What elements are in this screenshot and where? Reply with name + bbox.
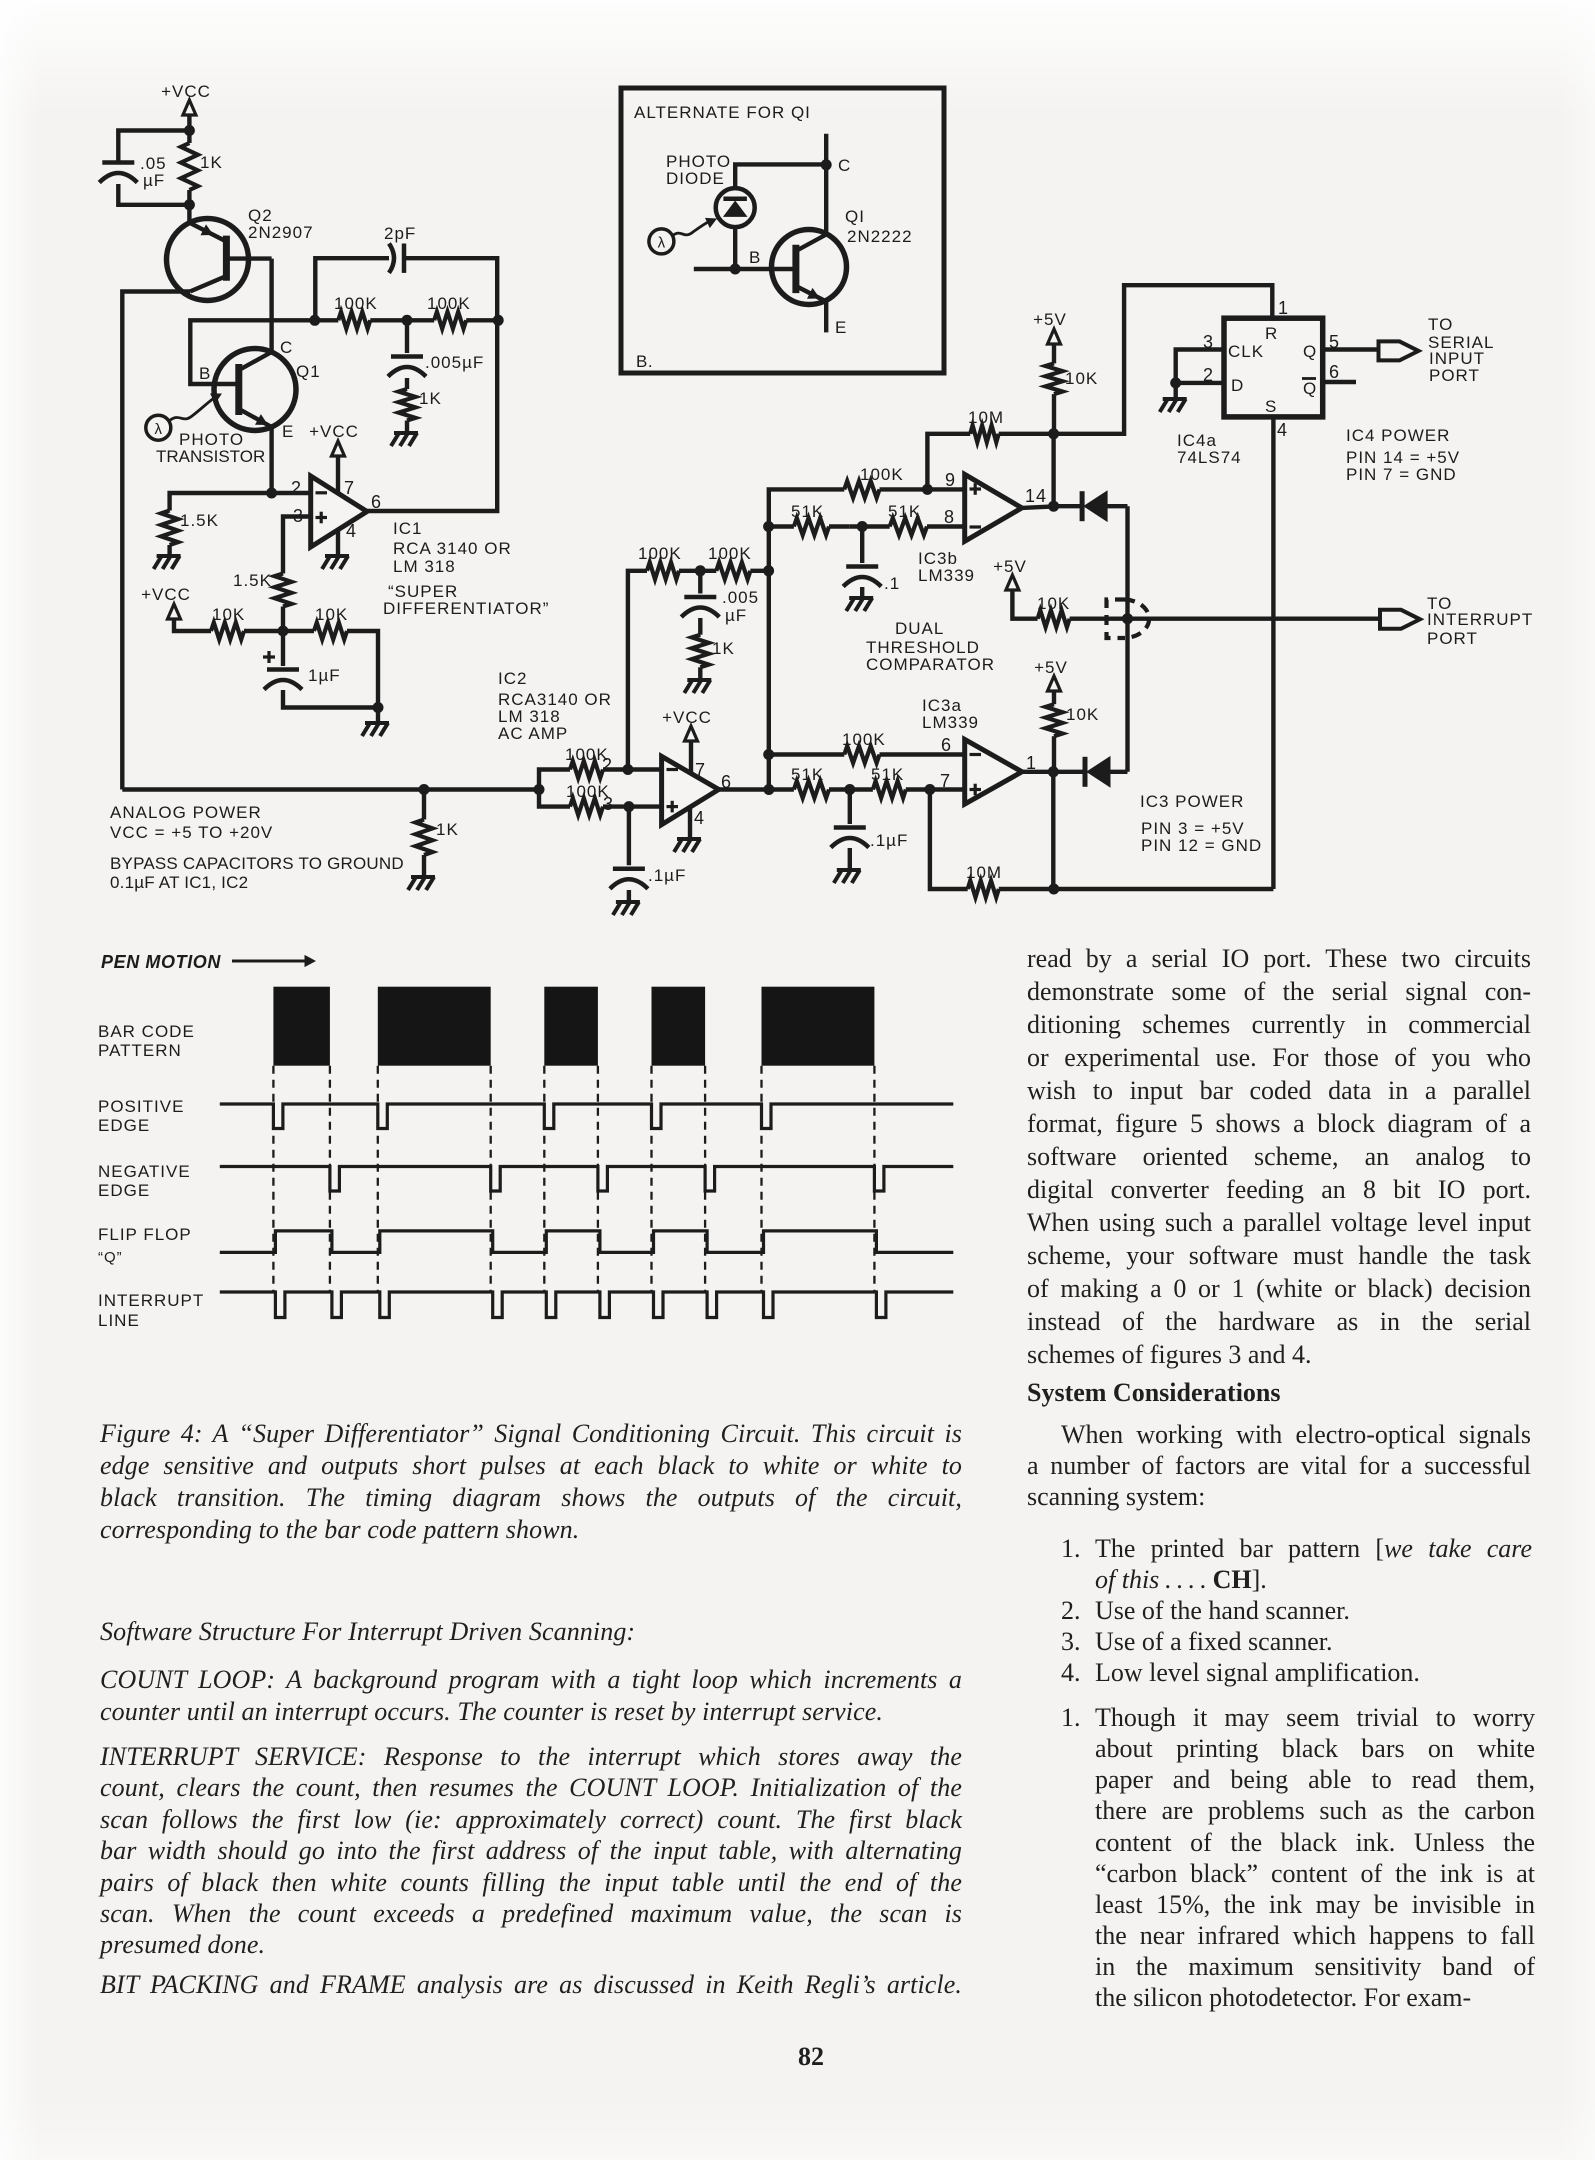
- svg-text:IC2: IC2: [498, 669, 527, 688]
- transistor Q1 (photo transistor): [199, 338, 321, 441]
- ground: [687, 678, 711, 682]
- node: IC2 pin2: [622, 764, 633, 775]
- connector (dashed): [1107, 600, 1150, 639]
- svg-text:C: C: [838, 156, 851, 175]
- node: base: [730, 264, 741, 275]
- wire: D: [1176, 381, 1224, 385]
- svg-text:14: 14: [1025, 486, 1047, 506]
- label IC3b: [918, 549, 975, 585]
- svg-text:1K: 1K: [436, 820, 459, 839]
- svg-text:.1µF: .1µF: [648, 866, 686, 885]
- resistor 10M (IC3a fb): [966, 863, 1273, 898]
- node: [1048, 884, 1059, 895]
- box: alternate for Q1: [621, 88, 944, 373]
- svg-text:10K: 10K: [1037, 594, 1070, 613]
- op-amp IC2 (AC amp): [602, 755, 732, 828]
- resistor 1.5K (Q1 emitter): [161, 493, 272, 556]
- resistor 51K (IC3a 2): [850, 765, 965, 798]
- node: IC1 pin2: [266, 488, 277, 499]
- svg-text:INTERRUPT: INTERRUPT: [1427, 610, 1533, 629]
- bar code bar 1: [273, 987, 330, 1066]
- wire: Q1 base loop: [190, 320, 314, 384]
- wire: diode junction vertical: [1125, 506, 1129, 772]
- svg-text:51K: 51K: [791, 502, 824, 521]
- wire: [1173, 383, 1177, 399]
- svg-text:Q1: Q1: [296, 362, 321, 381]
- wire: [848, 848, 852, 870]
- svg-text:1.5K: 1.5K: [180, 511, 219, 530]
- svg-text:10M: 10M: [968, 408, 1004, 427]
- port arrow: to serial input: [1379, 341, 1419, 360]
- svg-text:LM339: LM339: [922, 713, 979, 732]
- svg-text:VCC = +5 TO +20V: VCC = +5 TO +20V: [110, 823, 273, 842]
- bar code bar 5: [762, 987, 875, 1066]
- resistor 1K (IC1 fb): [399, 378, 442, 433]
- ground: [849, 596, 873, 600]
- label negative edge: [98, 1162, 191, 1200]
- svg-text:+VCC: +VCC: [141, 585, 191, 604]
- svg-text:7: 7: [344, 478, 355, 498]
- label to interrupt port: [1427, 594, 1533, 648]
- wire: [118, 184, 189, 205]
- svg-text:4: 4: [1277, 420, 1288, 440]
- node: [763, 565, 774, 576]
- ground: [411, 875, 435, 879]
- wire: pin14 node: [1051, 434, 1055, 506]
- label IC4a: [1177, 431, 1242, 467]
- svg-text:IC3 POWER: IC3 POWER: [1140, 792, 1244, 811]
- resistor 100K (IC3a pin6): [769, 730, 965, 763]
- ground: [616, 900, 640, 904]
- wire: [283, 690, 378, 708]
- svg-text:ANALOG POWER: ANALOG POWER: [110, 803, 262, 822]
- node: [821, 159, 832, 170]
- wire: IC3b output: [1022, 506, 1054, 508]
- svg-text:6: 6: [1329, 362, 1340, 382]
- wire: Q1 emitter down: [269, 427, 273, 493]
- label bar code pattern: [98, 1022, 195, 1060]
- node: IC2 pin3: [623, 801, 634, 812]
- svg-text:D: D: [1231, 376, 1244, 395]
- wire: S pin4: [1271, 417, 1275, 889]
- wire: [118, 131, 189, 163]
- resistor 10K (bias right): [283, 605, 378, 708]
- svg-text:LM 318: LM 318: [393, 557, 456, 576]
- resistor 1K (IC2 fb): [692, 618, 735, 680]
- resistor 1K (rail): [416, 790, 459, 878]
- wire: IC2 output: [719, 787, 769, 791]
- svg-text:IC4 POWER: IC4 POWER: [1346, 426, 1450, 445]
- wire: collector stub: [824, 134, 828, 234]
- wire pin4: [688, 807, 692, 839]
- node: [184, 199, 195, 210]
- resistor 10K (IC3a pullup): [1046, 704, 1100, 772]
- resistor 100K (IC2 in- ): [539, 782, 662, 815]
- node: IC3a pin7: [924, 784, 935, 795]
- svg-text:B.: B.: [636, 352, 653, 371]
- svg-text:POSITIVE: POSITIVE: [98, 1097, 184, 1116]
- waveform flip flop Q: [220, 1231, 954, 1253]
- svg-text:1K: 1K: [712, 639, 735, 658]
- svg-text:51K: 51K: [871, 765, 904, 784]
- wire: Qbar pin6 stub: [1323, 380, 1356, 384]
- port arrow: to interrupt: [1380, 610, 1420, 629]
- svg-text:74LS74: 74LS74: [1177, 448, 1242, 467]
- power +VCC (IC2): [662, 708, 712, 772]
- node: [534, 784, 545, 795]
- svg-text:10K: 10K: [1066, 705, 1099, 724]
- capacitor .005 uF (IC1): [388, 320, 484, 376]
- wire: to flip flop R pin1: [1054, 285, 1273, 434]
- resistor 51K (IC3a 1): [769, 765, 850, 798]
- waveform interrupt line: [220, 1292, 954, 1318]
- label IC3a: [922, 696, 979, 732]
- svg-text:0.1µF AT IC1, IC2: 0.1µF AT IC1, IC2: [110, 873, 248, 892]
- svg-text:4: 4: [694, 808, 705, 828]
- resistor 100K (IC2 fb 2): [700, 544, 768, 579]
- node: [695, 565, 706, 576]
- svg-text:EDGE: EDGE: [98, 1181, 150, 1200]
- svg-text:6: 6: [941, 735, 952, 755]
- bar code bar 2: [378, 987, 491, 1066]
- ground: [365, 721, 389, 725]
- svg-text:BYPASS CAPACITORS TO GROUND: BYPASS CAPACITORS TO GROUND: [110, 854, 404, 873]
- label IC1: [393, 519, 512, 576]
- svg-text:2: 2: [602, 755, 613, 775]
- svg-text:+VCC: +VCC: [161, 82, 211, 101]
- node: VCC top junction: [184, 125, 195, 136]
- label pen motion: [101, 952, 316, 972]
- wire: emitter stub: [824, 302, 828, 333]
- resistor 10M (IC3b fb): [927, 408, 1053, 489]
- svg-text:7: 7: [695, 760, 706, 780]
- resistor 10K (R pullup): [1046, 363, 1099, 433]
- svg-text:DIODE: DIODE: [666, 169, 725, 188]
- op-amp comparator IC3a LM339: [940, 735, 1037, 804]
- wire: IC3a output: [1022, 770, 1053, 774]
- svg-text:6: 6: [371, 492, 382, 512]
- power +5V (IC3a out): [1034, 658, 1068, 704]
- svg-text:100K: 100K: [860, 465, 904, 484]
- label positive edge: [98, 1097, 184, 1135]
- transistor Q1 2N2222 (alternate): [772, 207, 913, 305]
- photo diode: [666, 152, 755, 227]
- svg-text:+5V: +5V: [1033, 310, 1067, 329]
- waveform positive edge: [220, 1104, 954, 1129]
- svg-text:IC1: IC1: [393, 519, 422, 538]
- capacitor .1 uF (IC2 pin3): [610, 807, 686, 889]
- wire pin9: [927, 487, 964, 491]
- power +5V (interrupt pullup): [993, 557, 1037, 619]
- wire: IC3a fb down: [930, 790, 968, 890]
- resistor 51K (IC3b 2): [850, 502, 965, 535]
- svg-text:.1µF: .1µF: [870, 831, 908, 850]
- svg-text:PATTERN: PATTERN: [98, 1041, 182, 1060]
- wire: [376, 708, 380, 724]
- label flip flop Q: [98, 1225, 192, 1266]
- svg-text:9: 9: [945, 470, 956, 490]
- node: [763, 749, 774, 760]
- wire: Q pin5: [1323, 347, 1379, 351]
- svg-text:E: E: [835, 318, 847, 337]
- svg-text:+5V: +5V: [1034, 658, 1068, 677]
- wire: fb node down to IC1 output: [367, 320, 497, 511]
- ground: [1163, 397, 1187, 401]
- label to serial input port: [1428, 315, 1494, 385]
- capacitor .005 uF (IC2): [681, 571, 759, 625]
- node: [1048, 428, 1059, 439]
- resistor 10K (interrupt): [1037, 594, 1380, 627]
- svg-text:1µF: 1µF: [308, 666, 341, 685]
- svg-text:LINE: LINE: [98, 1311, 140, 1330]
- svg-text:+VCC: +VCC: [662, 708, 712, 727]
- svg-text:S: S: [1265, 397, 1277, 416]
- node: IC3b out pin14: [1048, 501, 1059, 512]
- resistor 1.5K (IC1 pin3): [233, 571, 292, 631]
- node: bias junction: [278, 626, 289, 637]
- ground: [394, 431, 418, 435]
- svg-text:PORT: PORT: [1429, 366, 1480, 385]
- svg-text:QI: QI: [845, 207, 865, 226]
- waveform negative edge: [220, 1167, 954, 1192]
- node: IC3b pin9: [922, 484, 933, 495]
- wire: photodiode to base: [733, 227, 737, 269]
- resistor 100K (IC1 fb 2): [407, 294, 498, 329]
- dashed guide lines: [273, 1066, 874, 1292]
- wire: signal rail: [122, 787, 539, 791]
- wire: Q2 base down to Q1 collector: [269, 259, 273, 352]
- wire: IC2 fb vertical: [628, 571, 647, 770]
- wire: [404, 258, 497, 320]
- svg-text:TRANSISTOR: TRANSISTOR: [156, 447, 265, 466]
- svg-text:.1: .1: [884, 574, 900, 593]
- svg-text:AC AMP: AC AMP: [498, 724, 568, 743]
- svg-text:E: E: [282, 422, 294, 441]
- ground: [157, 554, 181, 558]
- label super differentiator: [383, 582, 549, 618]
- svg-text:INTERRUPT: INTERRUPT: [98, 1291, 204, 1310]
- svg-text:100K: 100K: [334, 294, 378, 313]
- svg-text:COMPARATOR: COMPARATOR: [866, 655, 995, 674]
- capacitor 1 uF: [263, 631, 341, 690]
- svg-text:DUAL: DUAL: [895, 619, 944, 638]
- capacitor .05 uF: [99, 154, 166, 190]
- diode (IC3a out): [1053, 757, 1127, 787]
- resistor 100K (IC2 fb 1): [638, 544, 700, 579]
- node: IC2 out: [763, 784, 774, 795]
- svg-text:λ: λ: [658, 235, 666, 252]
- power +VCC (IC1): [309, 422, 359, 493]
- wire: out vertical: [769, 489, 845, 789]
- svg-text:3: 3: [603, 794, 614, 814]
- wire: [1051, 772, 1055, 889]
- wire pin4 to ground: [336, 530, 340, 556]
- svg-text:10K: 10K: [315, 605, 348, 624]
- svg-text:λ: λ: [155, 421, 163, 438]
- svg-text:100K: 100K: [638, 544, 682, 563]
- svg-text:4: 4: [346, 521, 357, 541]
- svg-text:PIN 12 = GND: PIN 12 = GND: [1141, 836, 1262, 855]
- svg-text:51K: 51K: [791, 765, 824, 784]
- svg-text:8: 8: [944, 507, 955, 527]
- ground: [837, 868, 861, 872]
- svg-text:TO: TO: [1428, 315, 1453, 334]
- svg-text:C: C: [280, 338, 293, 357]
- transistor Q2 2N2907: [167, 205, 314, 301]
- svg-text:1: 1: [1278, 298, 1289, 318]
- resistor 51K (IC3b 1): [769, 502, 850, 535]
- svg-text:+5V: +5V: [993, 557, 1027, 576]
- svg-text:100K: 100K: [708, 544, 752, 563]
- node: [402, 315, 413, 326]
- svg-text:2N2907: 2N2907: [248, 223, 314, 242]
- photo arrow lambda: [146, 394, 265, 467]
- label IC2: [498, 669, 612, 743]
- svg-text:B: B: [199, 364, 211, 383]
- flip-flop IC4a 74LS74: [1203, 298, 1340, 440]
- bar code bar 4: [652, 987, 706, 1066]
- svg-text:.005µF: .005µF: [425, 353, 484, 372]
- wire: [860, 587, 864, 598]
- svg-text:51K: 51K: [888, 502, 921, 521]
- capacitor .1 uF (IC3a): [831, 790, 909, 851]
- capacitor .1 (IC3b): [843, 527, 900, 594]
- label interrupt line: [98, 1291, 204, 1330]
- node: IC3a out pin1: [1048, 766, 1059, 777]
- node: Q1 feedback junction: [309, 315, 320, 326]
- svg-text:CLK: CLK: [1228, 342, 1264, 361]
- svg-text:B: B: [749, 248, 761, 267]
- resistor 100K (IC1 fb 1): [315, 294, 407, 329]
- svg-text:1K: 1K: [419, 389, 442, 408]
- node: [419, 784, 430, 795]
- wire: CLK: [1176, 350, 1224, 383]
- power +5V (flip flop R): [1033, 310, 1067, 363]
- wire: pin3: [283, 517, 311, 574]
- label IC4 power: [1346, 426, 1460, 484]
- svg-text:EDGE: EDGE: [98, 1116, 150, 1135]
- svg-text:2N2222: 2N2222: [847, 227, 913, 246]
- svg-text:FLIP FLOP: FLIP FLOP: [98, 1225, 192, 1244]
- resistor 100K (IC3b pin9): [844, 465, 927, 498]
- svg-text:100K: 100K: [427, 294, 471, 313]
- svg-text:7: 7: [940, 771, 951, 791]
- svg-text:µF: µF: [143, 171, 165, 190]
- svg-text:1.5K: 1.5K: [233, 571, 272, 590]
- label IC3 power: [1140, 792, 1262, 855]
- svg-text:PIN 7 = GND: PIN 7 = GND: [1346, 465, 1457, 484]
- node: [857, 521, 868, 532]
- ground: [325, 554, 349, 558]
- node: [1170, 377, 1181, 388]
- op-amp comparator IC3b LM339: [944, 470, 1047, 541]
- wire: Q2 collector to left rail: [122, 292, 190, 790]
- node: [763, 521, 774, 532]
- svg-text:“Q”: “Q”: [98, 1249, 123, 1266]
- svg-text:RCA 3140 OR: RCA 3140 OR: [393, 539, 512, 558]
- svg-text:2pF: 2pF: [384, 224, 416, 243]
- op-amp IC1 RCA3140: [291, 476, 382, 547]
- node: [373, 702, 384, 713]
- wire: base stub: [694, 267, 796, 271]
- svg-text:+VCC: +VCC: [309, 422, 359, 441]
- label analog power: [110, 803, 404, 892]
- wire: [627, 890, 631, 902]
- svg-text:Q: Q: [1303, 342, 1317, 361]
- wire: up to 2pF: [315, 258, 389, 320]
- label dual threshold comparator: [866, 619, 995, 674]
- svg-text:BAR CODE: BAR CODE: [98, 1022, 195, 1041]
- svg-text:10K: 10K: [212, 605, 245, 624]
- power +VCC (top left): [161, 82, 211, 131]
- svg-text:Q: Q: [1303, 379, 1317, 398]
- svg-text:.005: .005: [722, 588, 759, 607]
- wire: photodiode top: [735, 164, 826, 188]
- svg-text:LM339: LM339: [918, 566, 975, 585]
- svg-text:10M: 10M: [966, 863, 1002, 882]
- svg-text:µF: µF: [725, 606, 747, 625]
- svg-text:1K: 1K: [200, 153, 223, 172]
- bar code bar 3: [544, 987, 598, 1066]
- node: [493, 315, 504, 326]
- photo arrow lambda (alt): [649, 218, 717, 254]
- wire pin2: [272, 491, 311, 495]
- svg-text:100K: 100K: [842, 730, 886, 749]
- resistor 1K (Q2 emitter): [181, 131, 223, 205]
- capacitor 2pF: [384, 224, 416, 273]
- svg-text:ALTERNATE FOR QI: ALTERNATE FOR QI: [634, 103, 811, 122]
- svg-text:R: R: [1265, 324, 1278, 343]
- power +VCC (bias row): [141, 585, 211, 631]
- svg-text:NEGATIVE: NEGATIVE: [98, 1162, 191, 1181]
- ground: [677, 837, 701, 841]
- svg-text:PORT: PORT: [1427, 629, 1478, 648]
- svg-text:DIFFERENTIATOR”: DIFFERENTIATOR”: [383, 599, 549, 618]
- svg-text:10K: 10K: [1065, 369, 1098, 388]
- node: [844, 784, 855, 795]
- diode (IC3b out): [1054, 491, 1128, 521]
- node: interrupt junction: [1122, 613, 1133, 624]
- resistor 10K (bias left): [211, 605, 283, 640]
- svg-text:PEN MOTION: PEN MOTION: [101, 952, 221, 972]
- resistor 100K (IC2 in+ ): [539, 745, 662, 790]
